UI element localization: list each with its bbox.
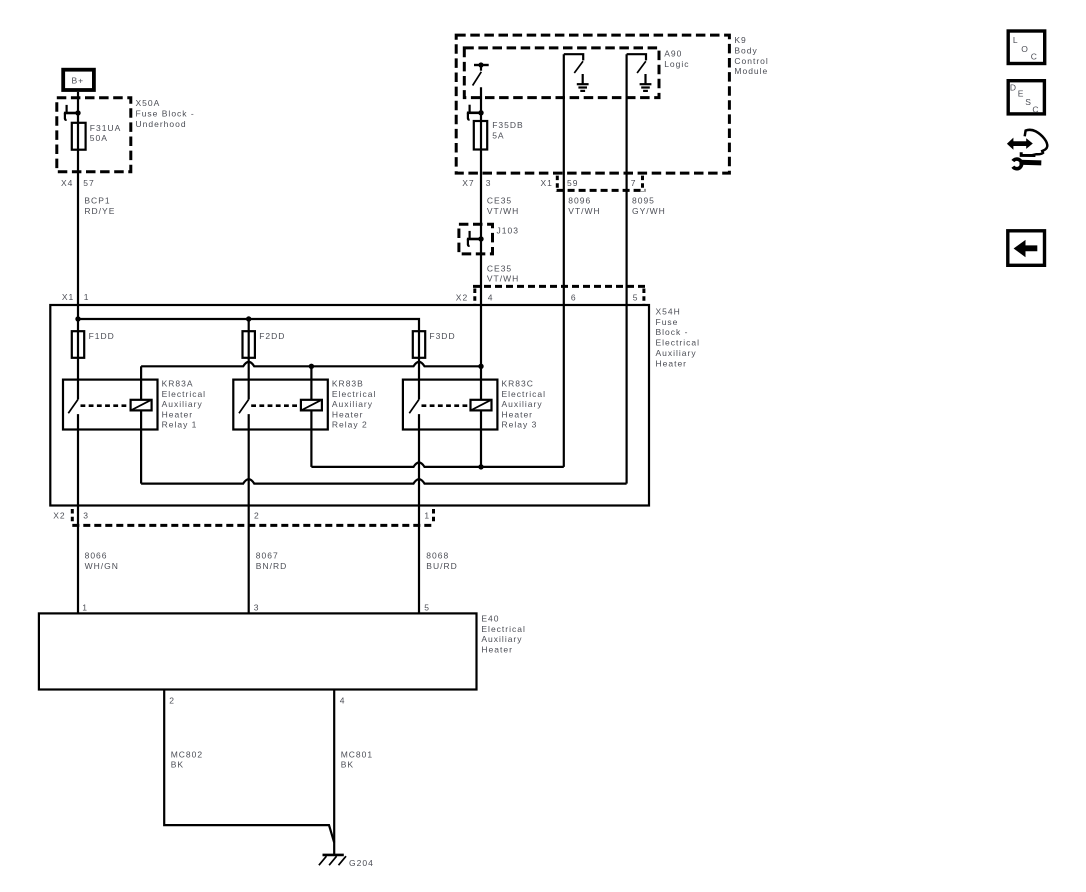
svg-text:8096: 8096 (568, 196, 591, 206)
ground G204 symbol (319, 855, 346, 865)
svg-text:D: D (1010, 83, 1017, 93)
logic module A90 dashed box (464, 48, 659, 98)
relay KR83B actuator dashed link (251, 404, 301, 407)
svg-text:KR83C: KR83C (502, 379, 534, 389)
relay coil supply bus with hops (141, 362, 481, 366)
svg-text:X2: X2 (53, 510, 65, 520)
svg-text:Control: Control (734, 56, 768, 66)
icon back button (1008, 231, 1045, 265)
coil return wire to pin 5 with hops (141, 479, 626, 483)
supply bus wire inside X54H (78, 319, 419, 399)
junction dot coil bus at CE35 (478, 364, 483, 369)
svg-text:WH/GN: WH/GN (85, 561, 119, 571)
connector strip X2 bottom of X54H (72, 509, 433, 525)
svg-text:CE35: CE35 (487, 263, 512, 273)
label X50A Fuse Block - Underhood (136, 98, 195, 129)
svg-text:6: 6 (571, 293, 577, 303)
switched output wire 1 inside X54H (77, 414, 79, 613)
icon troubleshooting (arrows and wrench) (1007, 130, 1047, 169)
svg-text:VT/WH: VT/WH (487, 206, 519, 216)
svg-text:J103: J103 (497, 226, 519, 236)
svg-text:Block -: Block - (656, 327, 689, 337)
fuse F2DD (243, 331, 286, 358)
svg-text:57: 57 (83, 178, 94, 188)
coil return wire to pin 6 with hop (311, 463, 563, 467)
svg-text:Relay 1: Relay 1 (162, 420, 198, 430)
pin label X1 1 at X54H (62, 292, 90, 302)
svg-text:5A: 5A (492, 131, 504, 141)
svg-text:Electrical: Electrical (332, 389, 376, 399)
svg-text:Heater: Heater (502, 409, 534, 419)
svg-text:X7: X7 (462, 178, 474, 188)
svg-text:X50A: X50A (136, 98, 161, 108)
svg-text:Auxiliary: Auxiliary (502, 399, 543, 409)
svg-text:Heater: Heater (481, 645, 513, 655)
svg-text:8066: 8066 (85, 551, 108, 561)
junction dot coil bus at KR83B coil (309, 364, 314, 369)
wire KR83A coil bottom (140, 410, 142, 483)
svg-text:Fuse Block -: Fuse Block - (136, 109, 195, 119)
svg-text:59: 59 (567, 178, 578, 188)
electrical auxiliary heater E40 box (39, 613, 477, 689)
wire KR83B coil bottom (310, 410, 312, 467)
svg-text:5: 5 (633, 293, 639, 303)
switched output wire 3 inside X54H (418, 414, 420, 613)
fuse block X54H solid box (50, 305, 649, 506)
pin labels X1 59 7 below K9 (541, 178, 637, 188)
svg-text:1: 1 (84, 292, 90, 302)
svg-text:3: 3 (486, 178, 492, 188)
svg-text:E: E (1018, 89, 1025, 99)
svg-text:2: 2 (169, 696, 175, 706)
svg-text:Electrical: Electrical (162, 389, 206, 399)
svg-text:BN/RD: BN/RD (256, 561, 287, 571)
wire label CE35 VT/WH (upper) (487, 196, 519, 216)
svg-text:F1DD: F1DD (89, 331, 115, 341)
pin labels X7 3 below K9 (462, 178, 491, 188)
wire F2DD branch (248, 319, 250, 399)
svg-text:Auxiliary: Auxiliary (332, 399, 373, 409)
svg-text:3: 3 (83, 510, 89, 520)
svg-text:Underhood: Underhood (136, 119, 187, 129)
svg-text:C: C (1031, 52, 1038, 62)
svg-text:X2: X2 (456, 293, 468, 303)
svg-text:G204: G204 (349, 858, 374, 868)
svg-text:Module: Module (734, 66, 768, 76)
svg-text:Auxiliary: Auxiliary (481, 634, 522, 644)
svg-text:F35DB: F35DB (492, 120, 523, 130)
battery B+ terminal box (63, 70, 94, 90)
svg-text:1: 1 (424, 510, 430, 520)
wire KR83B coil top (310, 366, 312, 400)
svg-text:BK: BK (171, 760, 184, 770)
icon LOC button (1008, 31, 1044, 64)
svg-text:X1: X1 (62, 292, 74, 302)
pin labels X2 3 2 1 (53, 510, 430, 520)
svg-text:C: C (1032, 105, 1039, 115)
svg-text:E40: E40 (481, 613, 499, 623)
svg-text:Logic: Logic (664, 59, 689, 69)
svg-text:8067: 8067 (256, 551, 279, 561)
wire KR83C coil bottom (480, 410, 482, 467)
junction dot bus at F2DD (246, 316, 251, 321)
relay KR83C switch blade (409, 399, 419, 413)
label E40 Electrical Auxiliary Heater (481, 613, 525, 654)
svg-text:Auxiliary: Auxiliary (162, 399, 203, 409)
relay KR83C coil (471, 400, 492, 411)
label X54H Fuse Block - Electrical Auxiliary Heater (656, 306, 700, 368)
svg-text:L: L (1013, 35, 1019, 45)
connector pin symbol in X50A (64, 105, 78, 120)
svg-text:8095: 8095 (632, 196, 655, 206)
ground switch in A90 for 8096 (564, 54, 583, 73)
splice J103 dashed box (459, 224, 493, 254)
junction dot in J103 (478, 236, 483, 241)
wire label 8067 BN/RD (256, 551, 287, 571)
svg-text:VT/WH: VT/WH (487, 274, 519, 284)
fuse block X50A dashed box (57, 98, 131, 172)
junction dot above F35DB (478, 110, 483, 115)
wire CE35 from A90 switch down (480, 87, 482, 400)
svg-text:2: 2 (254, 510, 260, 520)
svg-text:Electrical: Electrical (502, 389, 546, 399)
pin label X4 57 (61, 178, 95, 188)
relay KR83B switch blade (239, 399, 249, 413)
svg-text:Auxiliary: Auxiliary (656, 348, 697, 358)
fuse F31UA 50A (72, 123, 121, 150)
wire label 8068 BU/RD (426, 551, 457, 571)
svg-text:CE35: CE35 (487, 196, 512, 206)
svg-text:3: 3 (254, 603, 260, 613)
wire through fuse F31UA (77, 113, 79, 185)
relay KR83A box (63, 380, 158, 430)
svg-text:BU/RD: BU/RD (426, 561, 457, 571)
svg-text:BCP1: BCP1 (84, 196, 110, 206)
junction dot bus at wire 1 (75, 316, 80, 321)
connector pin symbol above F35DB (467, 105, 481, 120)
wire MC802 BK (164, 690, 334, 843)
junction dot at KR83C coil return (478, 464, 483, 469)
fuse F1DD (72, 331, 115, 358)
pin labels 1 3 5 at E40 (82, 603, 430, 613)
wire label 8095 GY/WH (632, 196, 666, 216)
wire label 8096 VT/WH (568, 196, 600, 216)
svg-text:F3DD: F3DD (429, 331, 455, 341)
junction dot at X50A connector (75, 110, 80, 115)
svg-text:X4: X4 (61, 178, 73, 188)
label KR83C Electrical Auxiliary Heater Relay 3 (502, 379, 546, 430)
switched output wire 2 inside X54H (248, 414, 250, 613)
relay KR83B coil (301, 400, 322, 411)
relay KR83C box (403, 380, 498, 430)
svg-text:Relay 3: Relay 3 (502, 420, 538, 430)
pin labels 2 4 below E40 (169, 696, 345, 706)
wire KR83A coil top (140, 366, 142, 400)
svg-text:Electrical: Electrical (481, 624, 525, 634)
connector strip X2 top of X54H (473, 286, 645, 304)
ground switch in A90 for 8095 (627, 54, 646, 73)
svg-text:1: 1 (82, 603, 88, 613)
svg-text:Fuse: Fuse (656, 317, 679, 327)
svg-text:BK: BK (341, 760, 354, 770)
wire label CE35 VT/WH (lower) (487, 263, 519, 283)
svg-text:4: 4 (488, 293, 494, 303)
wire 8096 from A90 down (563, 54, 565, 467)
svg-text:GY/WH: GY/WH (632, 206, 666, 216)
svg-text:5: 5 (424, 603, 430, 613)
svg-text:Relay 2: Relay 2 (332, 420, 368, 430)
svg-text:VT/WH: VT/WH (568, 206, 600, 216)
svg-text:K9: K9 (734, 35, 746, 45)
svg-text:Body: Body (734, 45, 757, 55)
svg-text:MC802: MC802 (171, 749, 203, 759)
svg-text:B+: B+ (72, 76, 85, 86)
svg-text:O: O (1021, 44, 1029, 54)
label K9 Body Control Module (734, 35, 768, 76)
relay KR83A actuator dashed link (81, 404, 131, 407)
pin labels X2 4 6 5 (456, 293, 639, 303)
fuse F3DD (413, 331, 456, 358)
svg-text:X1: X1 (541, 178, 553, 188)
wire MC801 BK (333, 690, 335, 855)
svg-text:S: S (1025, 97, 1032, 107)
relay KR83B box (233, 380, 327, 430)
svg-text:Heater: Heater (656, 358, 688, 368)
fuse F35DB 5A (474, 120, 524, 149)
svg-text:4: 4 (340, 696, 346, 706)
wire 8095 from A90 down (625, 54, 627, 483)
wire B+ feed into fuse block (77, 92, 79, 113)
connector strip X1 below K9 (557, 176, 646, 192)
relay KR83A switch blade (68, 399, 78, 413)
svg-text:A90: A90 (664, 49, 682, 59)
svg-text:KR83A: KR83A (162, 379, 194, 389)
wire label 8066 WH/GN (85, 551, 119, 571)
svg-text:Heater: Heater (332, 409, 364, 419)
relay KR83A coil (131, 400, 152, 411)
svg-text:7: 7 (631, 178, 637, 188)
svg-text:RD/YE: RD/YE (84, 206, 115, 216)
svg-text:MC801: MC801 (341, 749, 373, 759)
svg-text:F2DD: F2DD (259, 331, 285, 341)
label KR83A Electrical Auxiliary Heater Relay 1 (162, 379, 206, 430)
label A90 Logic (664, 49, 689, 69)
relay KR83C actuator dashed link (422, 404, 471, 407)
wire BCP1 RD/YE (77, 185, 79, 399)
switch contact in A90 (CE35 driver) (473, 62, 489, 85)
svg-text:KR83B: KR83B (332, 379, 364, 389)
svg-text:Heater: Heater (162, 409, 194, 419)
svg-text:Electrical: Electrical (656, 338, 700, 348)
svg-text:X54H: X54H (656, 306, 681, 316)
svg-text:8068: 8068 (426, 551, 449, 561)
ground symbol in A90 (8096) (577, 74, 589, 91)
ground symbol in A90 (8095) (640, 74, 652, 91)
connector pin symbol in J103 (467, 231, 481, 246)
svg-text:50A: 50A (90, 133, 108, 143)
svg-text:F31UA: F31UA (90, 123, 121, 133)
icon DESC button (1008, 81, 1044, 115)
body control module K9 dashed box (456, 35, 729, 173)
label KR83B Electrical Auxiliary Heater Relay 2 (332, 379, 376, 430)
